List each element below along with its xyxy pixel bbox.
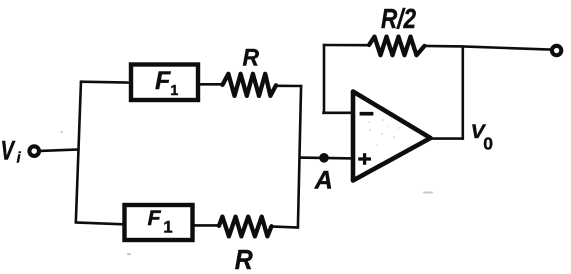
label V0 <box>471 121 494 154</box>
block F1 (top) <box>131 65 198 101</box>
node A dot <box>319 153 329 163</box>
wire op-amp output <box>430 137 464 140</box>
label Vi <box>1 135 22 166</box>
svg-text:F: F <box>148 206 162 230</box>
svg-text:R/2: R/2 <box>381 3 417 34</box>
wire right vertical bus <box>298 85 301 228</box>
svg-text:R: R <box>235 244 254 274</box>
input terminal <box>29 146 39 156</box>
wire feedback to output terminal <box>424 46 551 50</box>
wire F1 to R (bottom) <box>192 224 220 227</box>
inverting input minus marker <box>360 112 374 116</box>
wire top branch left <box>80 80 131 84</box>
wire feedback top left <box>323 44 371 47</box>
wire R to right bus (bottom) <box>271 226 300 227</box>
svg-text:0: 0 <box>483 133 493 153</box>
wire R to right bus (top) <box>275 85 302 88</box>
wire feedback left vertical <box>323 44 326 114</box>
scan speckles <box>61 131 434 255</box>
wire output vertical <box>461 45 464 139</box>
wire left vertical bus <box>76 81 81 223</box>
wire F1 to R (top) <box>198 83 224 86</box>
wire input to left bus <box>40 149 80 151</box>
svg-text:F: F <box>155 67 171 95</box>
resistor R (top) <box>223 74 277 96</box>
wire node A to op-amp <box>299 156 353 159</box>
resistor R/2 <box>369 37 425 56</box>
svg-text:1: 1 <box>170 83 178 99</box>
resistor R (bottom) <box>219 217 272 237</box>
block F1 (bottom) <box>125 205 193 240</box>
svg-text:1: 1 <box>163 218 172 237</box>
svg-text:R: R <box>243 45 260 72</box>
svg-text:A: A <box>314 167 333 195</box>
op-amp U1 <box>353 92 431 181</box>
non-inverting input plus marker <box>358 153 371 165</box>
wire inverting input <box>322 112 353 115</box>
wire bottom branch left <box>75 222 124 224</box>
svg-text:V: V <box>1 135 16 165</box>
output terminal <box>552 46 561 55</box>
